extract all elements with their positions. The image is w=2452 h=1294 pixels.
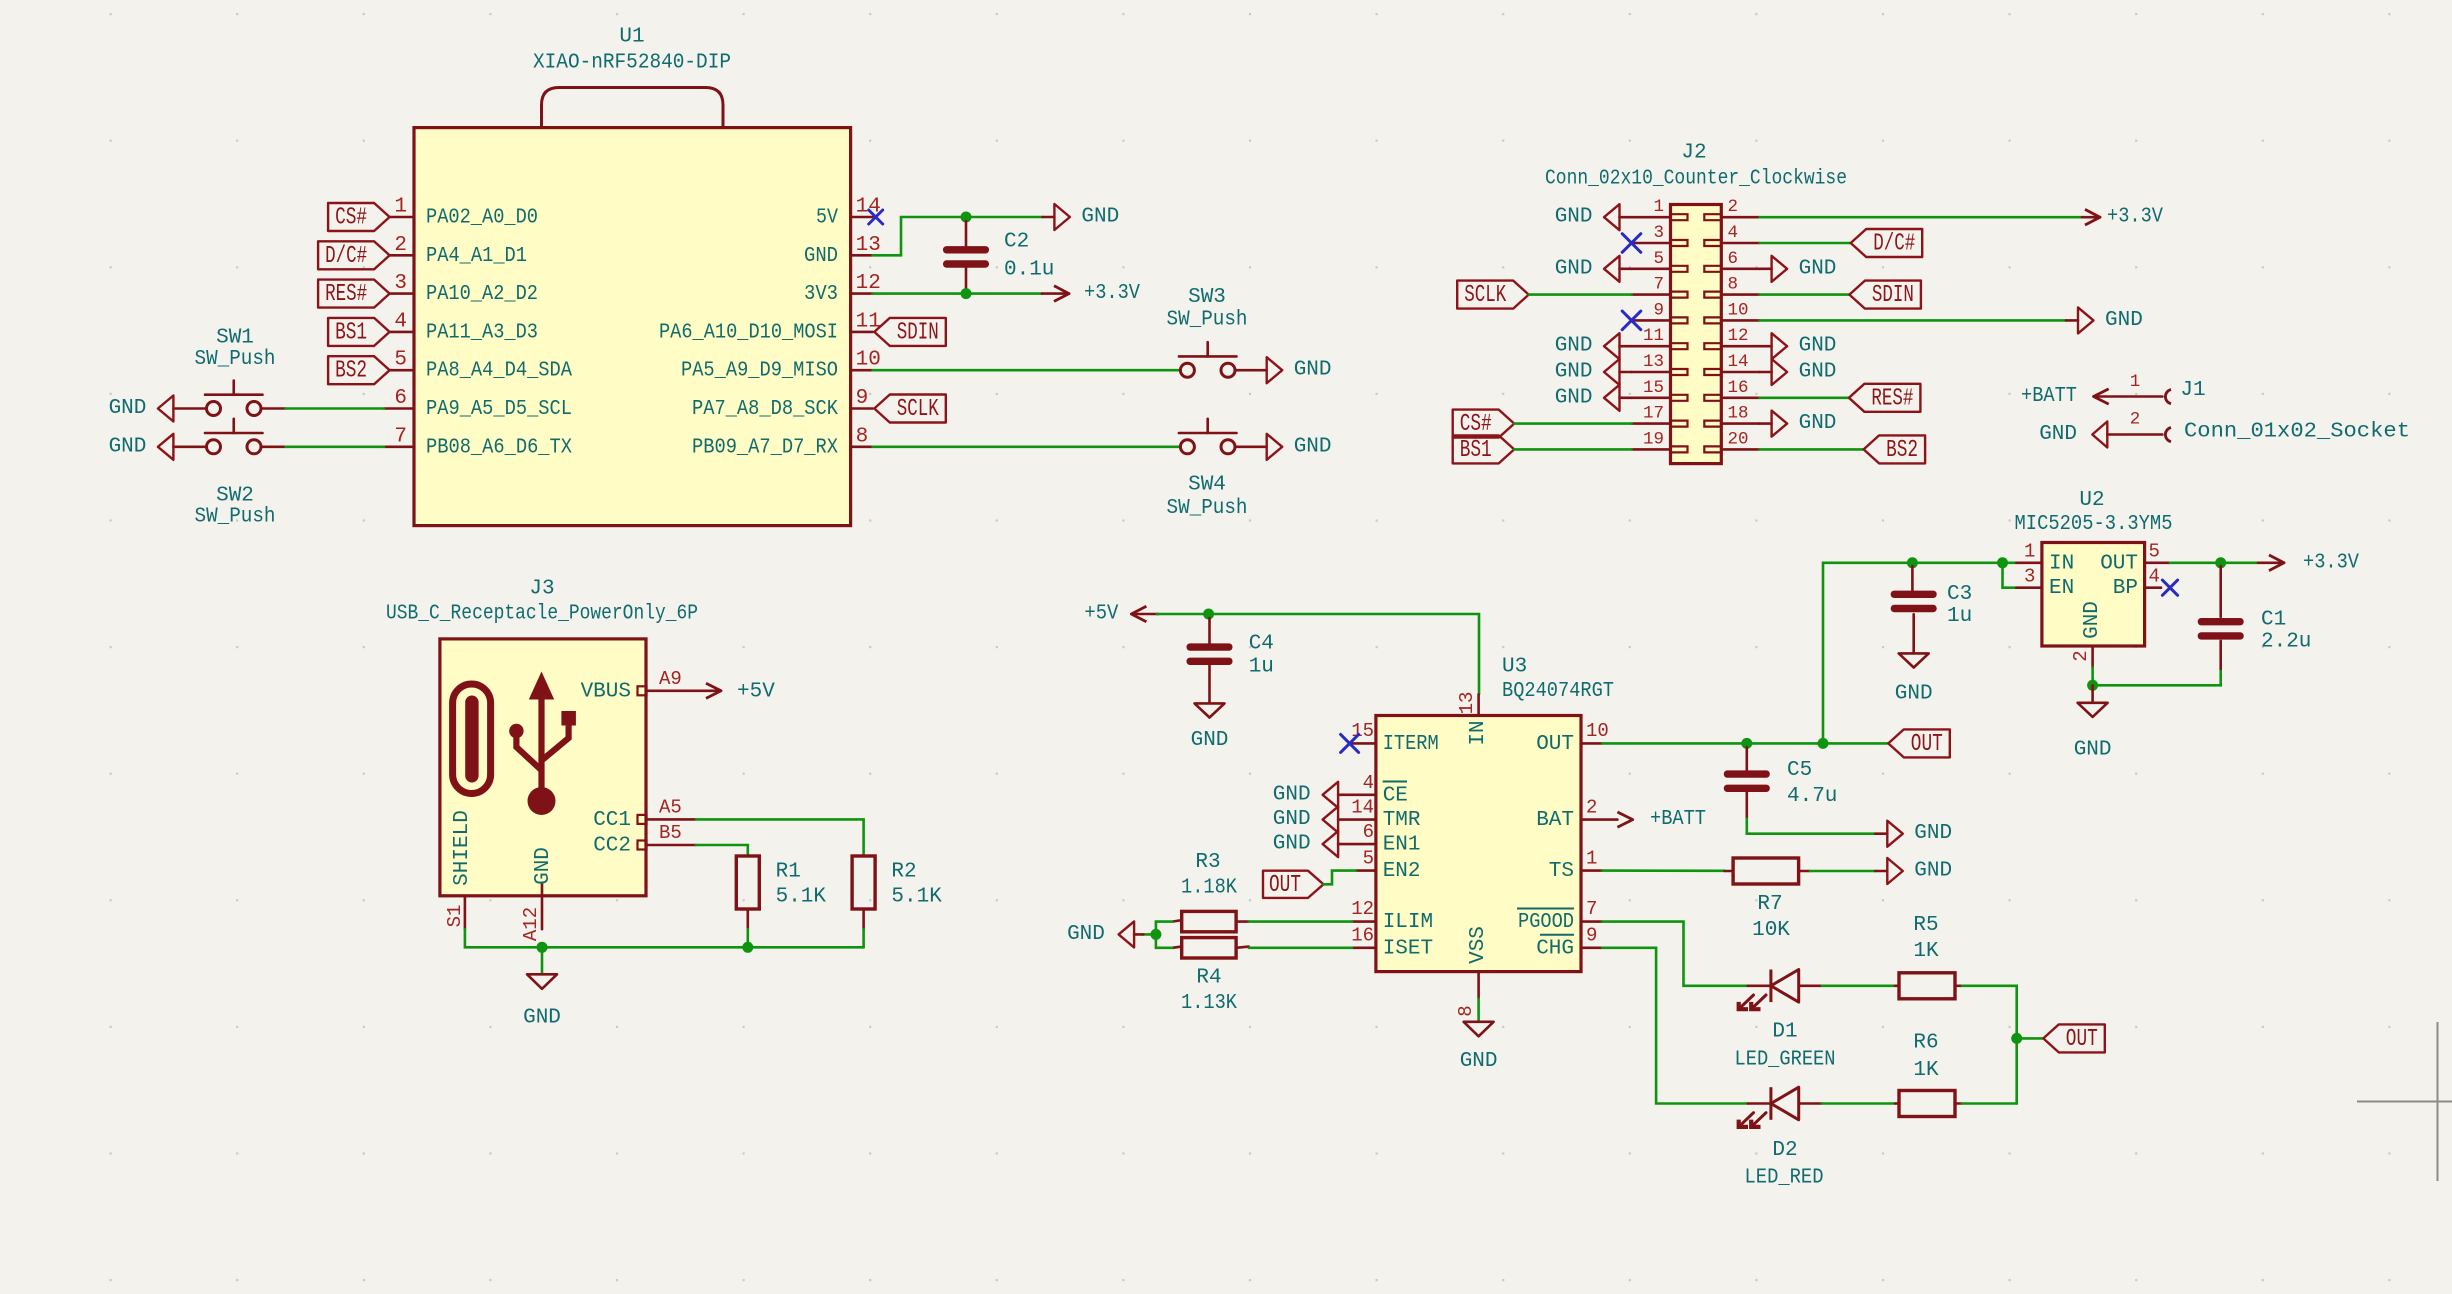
svg-text:5: 5 bbox=[394, 349, 407, 372]
svg-text:GND: GND bbox=[109, 435, 147, 458]
svg-text:OUT: OUT bbox=[1536, 733, 1574, 756]
GND hierarchical label left of SW2 bbox=[109, 434, 207, 460]
USB-C receptacle oval icon bbox=[453, 684, 491, 794]
svg-text:5.1K: 5.1K bbox=[891, 886, 942, 909]
svg-text:VSS: VSS bbox=[1467, 926, 1490, 964]
svg-text:10: 10 bbox=[856, 349, 881, 372]
svg-text:PB09_A7_D7_RX: PB09_A7_D7_RX bbox=[692, 436, 838, 459]
svg-text:R3: R3 bbox=[1195, 851, 1220, 874]
J3 pin B5 CC2 bbox=[593, 822, 696, 858]
svg-text:1: 1 bbox=[1653, 197, 1664, 217]
svg-text:PA10_A2_D2: PA10_A2_D2 bbox=[426, 283, 538, 306]
svg-text:+3.3V: +3.3V bbox=[2303, 551, 2359, 574]
GND hierarchical label at J2 pin 13 bbox=[1555, 359, 1632, 385]
wire U3 TS to R7 bbox=[1602, 869, 1725, 872]
svg-text:PA11_A3_D3: PA11_A3_D3 bbox=[426, 321, 538, 344]
J2 pin 16 bbox=[1704, 378, 1759, 401]
svg-text:J2: J2 bbox=[1681, 142, 1706, 165]
switch SW1 SW_Push bbox=[195, 327, 276, 416]
svg-text:GND: GND bbox=[1799, 361, 1837, 384]
switch SW3 SW_Push bbox=[1167, 286, 1248, 377]
svg-text:BS1: BS1 bbox=[335, 319, 367, 346]
svg-text:D2: D2 bbox=[1772, 1139, 1797, 1162]
svg-text:R6: R6 bbox=[1913, 1032, 1938, 1055]
svg-text:PB08_A6_D6_TX: PB08_A6_D6_TX bbox=[426, 436, 572, 459]
U1 pin 9 PA7_A8_D8_SCK bbox=[692, 387, 873, 421]
svg-text:2: 2 bbox=[2070, 650, 2092, 661]
svg-text:RES#: RES# bbox=[325, 281, 367, 308]
junction at C2 bottom bbox=[961, 288, 972, 299]
U1 pin 6 PA9_A5_D5_SCL bbox=[384, 387, 572, 421]
power label +3.3V at J2 bbox=[2082, 206, 2163, 229]
wire OUT riser to U2 IN bbox=[1823, 563, 2016, 744]
svg-text:R1: R1 bbox=[776, 861, 801, 884]
J2 pin 18 bbox=[1704, 404, 1759, 427]
svg-text:CC1: CC1 bbox=[593, 809, 631, 832]
resistor R3 1.18K bbox=[1172, 851, 1249, 932]
svg-text:D1: D1 bbox=[1772, 1021, 1797, 1044]
wire +5V to U3 IN riser bbox=[1157, 614, 1479, 694]
svg-text:19: 19 bbox=[1643, 429, 1664, 449]
GND power symbol below U2 bbox=[2074, 685, 2112, 761]
svg-text:17: 17 bbox=[1643, 404, 1664, 424]
svg-text:GND: GND bbox=[523, 1006, 561, 1029]
capacitor C4 1u bbox=[1187, 618, 1274, 702]
svg-text:8: 8 bbox=[856, 425, 869, 448]
power label +BATT at U3 BAT bbox=[1617, 808, 1706, 831]
svg-text:U2: U2 bbox=[2079, 489, 2104, 512]
svg-text:PA9_A5_D5_SCL: PA9_A5_D5_SCL bbox=[426, 398, 572, 421]
J2 pin 17 bbox=[1632, 404, 1688, 427]
svg-text:12: 12 bbox=[1728, 326, 1749, 346]
svg-text:8: 8 bbox=[1728, 275, 1739, 295]
svg-text:GND: GND bbox=[2081, 601, 2104, 639]
U2 pin 1 IN bbox=[2016, 541, 2074, 576]
svg-text:GND: GND bbox=[1555, 386, 1593, 409]
svg-text:5: 5 bbox=[1653, 249, 1664, 269]
svg-text:CHG: CHG bbox=[1536, 937, 1574, 960]
net label OUT at U3 EN2 bbox=[1263, 871, 1324, 899]
U3 pin 5 EN2 bbox=[1356, 848, 1421, 884]
svg-text:1.18K: 1.18K bbox=[1181, 877, 1237, 900]
J2 pin 8 bbox=[1704, 275, 1759, 298]
svg-text:S1: S1 bbox=[444, 905, 466, 928]
wire U2 EN branch bbox=[2003, 563, 2017, 588]
wire junction to OUT label bbox=[2017, 1037, 2044, 1040]
junction at R1 bottom bbox=[742, 942, 753, 953]
svg-text:GND: GND bbox=[1799, 412, 1837, 435]
wire R7 to GND bbox=[1810, 870, 1875, 873]
wire J2 pin 8 to SDIN bbox=[1760, 293, 1850, 296]
J2 pin 3 bbox=[1632, 223, 1688, 246]
svg-text:3: 3 bbox=[394, 272, 407, 295]
svg-text:GND: GND bbox=[1273, 783, 1311, 806]
junction at U2 EN branch bbox=[1997, 557, 2008, 568]
net label D/C# (U1 pin 2) bbox=[318, 241, 390, 269]
U3 pin 12 ILIM bbox=[1351, 898, 1433, 934]
wire J2 pin 2 to +3.3V bbox=[1760, 216, 2082, 219]
wire R4 to U3 ISET bbox=[1249, 946, 1352, 949]
no-connect X on J2 pin 3 bbox=[1622, 234, 1641, 253]
svg-text:GND: GND bbox=[1294, 435, 1332, 458]
svg-text:EN1: EN1 bbox=[1383, 834, 1421, 857]
U1 pin 7 PB08_A6_D6_TX bbox=[384, 425, 572, 459]
net label SDIN at J2 pin 8 bbox=[1849, 281, 1921, 310]
net label BS2 at J2 pin 20 bbox=[1864, 435, 1926, 464]
svg-text:4: 4 bbox=[394, 310, 407, 333]
J3 pin A5 CC1 bbox=[593, 797, 696, 832]
wire SW1 to U1 pin6 bbox=[261, 407, 285, 410]
net label SCLK (U1 pin 9) bbox=[874, 395, 946, 424]
svg-text:4: 4 bbox=[1363, 772, 1374, 794]
svg-text:0.1u: 0.1u bbox=[1004, 259, 1054, 282]
svg-text:+5V: +5V bbox=[737, 680, 775, 703]
svg-text:9: 9 bbox=[1653, 300, 1664, 320]
J2 pin 13 bbox=[1632, 352, 1688, 375]
net label BS1 at J2 pin 19 bbox=[1453, 435, 1515, 464]
svg-text:4: 4 bbox=[1728, 223, 1739, 243]
svg-text:ITERM: ITERM bbox=[1383, 733, 1439, 756]
U1 pin 10 PA5_A9_D9_MISO bbox=[681, 349, 881, 383]
U3 pin 14 TMR bbox=[1338, 797, 1421, 833]
svg-text:SDIN: SDIN bbox=[1872, 282, 1914, 309]
svg-text:1u: 1u bbox=[1249, 656, 1274, 679]
no-connect X on U1 pin 14 bbox=[869, 210, 883, 224]
svg-text:MIC5205-3.3YM5: MIC5205-3.3YM5 bbox=[2015, 513, 2173, 536]
svg-text:PA6_A10_D10_MOSI: PA6_A10_D10_MOSI bbox=[659, 321, 838, 344]
wire R6 to OUT junction bbox=[1962, 1102, 2017, 1105]
svg-text:GND: GND bbox=[1555, 206, 1593, 229]
net label CS# at J2 pin 17 bbox=[1453, 410, 1515, 439]
J2 pin 7 bbox=[1632, 275, 1688, 298]
svg-text:USB_C_Receptacle_PowerOnly_6P: USB_C_Receptacle_PowerOnly_6P bbox=[386, 603, 698, 626]
svg-text:GND: GND bbox=[2105, 309, 2143, 332]
svg-text:14: 14 bbox=[1351, 797, 1374, 819]
U2 pin 5 OUT bbox=[2100, 541, 2170, 576]
GND hierarchical label left of SW1 bbox=[109, 396, 207, 422]
svg-text:SW1: SW1 bbox=[216, 327, 254, 350]
SW3 pin2 lead bbox=[1235, 369, 1255, 372]
svg-text:J1: J1 bbox=[2180, 379, 2205, 402]
wire U3 OUT net bbox=[1602, 742, 1888, 745]
svg-text:13: 13 bbox=[1643, 352, 1664, 372]
net label BS1 (U1 pin 4) bbox=[328, 318, 390, 347]
U3 pin 9 CHG bbox=[1536, 925, 1602, 961]
J2 pin 20 bbox=[1704, 429, 1759, 452]
wire U3 CHG to D2 bbox=[1602, 948, 1748, 1104]
net label RES# at J2 pin 16 bbox=[1849, 384, 1921, 413]
svg-text:LED_GREEN: LED_GREEN bbox=[1735, 1049, 1836, 1072]
junction at OUT riser bbox=[1818, 738, 1829, 749]
svg-text:12: 12 bbox=[856, 272, 881, 295]
wire J2 pin 10 to GND bbox=[1760, 319, 2066, 322]
svg-text:GND: GND bbox=[532, 847, 555, 885]
svg-text:PA7_A8_D8_SCK: PA7_A8_D8_SCK bbox=[692, 398, 838, 421]
GND hierarchical label at R3/R4 bbox=[1067, 921, 1143, 947]
GND power symbol below C4 bbox=[1191, 703, 1229, 752]
resistor R2 5.1K bbox=[852, 856, 942, 929]
J2 pin 6 bbox=[1704, 249, 1759, 272]
J2 pin 19 bbox=[1632, 429, 1688, 452]
svg-text:A9: A9 bbox=[659, 668, 682, 690]
GND hierarchical label at C5 bbox=[1875, 821, 1952, 847]
svg-text:BS1: BS1 bbox=[1460, 437, 1492, 464]
svg-text:BS2: BS2 bbox=[335, 358, 367, 385]
svg-text:2: 2 bbox=[1586, 797, 1597, 819]
GND hierarchical label at U3 pin 4 bbox=[1273, 782, 1338, 808]
U1 pin 3 PA10_A2_D2 bbox=[390, 272, 538, 306]
wire U1 pin13 GND to GND label bbox=[873, 217, 1043, 255]
svg-text:5.1K: 5.1K bbox=[776, 886, 827, 909]
J3 pin A9 VBUS bbox=[581, 668, 721, 703]
svg-text:B5: B5 bbox=[659, 822, 682, 844]
wire CC2 to R1 bbox=[696, 845, 748, 856]
svg-text:ILIM: ILIM bbox=[1383, 911, 1433, 934]
svg-text:+BATT: +BATT bbox=[1650, 808, 1706, 831]
J2 reference and value labels bbox=[1545, 142, 1847, 191]
svg-text:A12: A12 bbox=[520, 907, 542, 941]
net label OUT near C5 bbox=[1888, 729, 1950, 758]
svg-text:1K: 1K bbox=[1913, 1059, 1939, 1082]
svg-text:1.13K: 1.13K bbox=[1181, 992, 1237, 1015]
GND hierarchical label right of SW3 bbox=[1255, 357, 1332, 383]
svg-text:VBUS: VBUS bbox=[581, 680, 631, 703]
wire R3/R4 left junction bbox=[1156, 922, 1172, 948]
svg-text:SW_Push: SW_Push bbox=[195, 348, 276, 371]
svg-text:GND: GND bbox=[1294, 359, 1332, 382]
svg-text:GND: GND bbox=[1895, 683, 1933, 706]
U1 pin 12 3V3 bbox=[804, 272, 881, 306]
svg-text:9: 9 bbox=[856, 387, 869, 410]
junction at C2 top bbox=[961, 212, 972, 223]
svg-text:PA8_A4_D4_SDA: PA8_A4_D4_SDA bbox=[426, 360, 572, 383]
svg-text:16: 16 bbox=[1728, 378, 1749, 398]
J1 pin 2 bbox=[2107, 410, 2171, 442]
resistor R6 1K bbox=[1895, 1032, 1962, 1117]
switch SW2 SW_Push bbox=[195, 419, 276, 529]
junction at C3 top bbox=[1907, 557, 1918, 568]
svg-text:4.7u: 4.7u bbox=[1787, 785, 1837, 808]
svg-text:3V3: 3V3 bbox=[804, 283, 838, 306]
svg-text:BQ24074RGT: BQ24074RGT bbox=[1502, 680, 1614, 703]
svg-text:3: 3 bbox=[2024, 566, 2035, 588]
svg-text:6: 6 bbox=[394, 387, 407, 410]
svg-text:SW4: SW4 bbox=[1188, 474, 1226, 497]
junction at C1 top bbox=[2215, 557, 2226, 568]
J3 body USB_C_Receptacle_PowerOnly_6P bbox=[440, 639, 646, 896]
svg-text:U1: U1 bbox=[619, 26, 644, 49]
U1 pin 8 PB09_A7_D7_RX bbox=[692, 425, 873, 459]
GND hierarchical label at J2 pin 5 bbox=[1555, 256, 1632, 282]
resistor R4 1.13K bbox=[1172, 938, 1249, 1015]
net label BS2 (U1 pin 5) bbox=[328, 356, 390, 385]
svg-text:GND: GND bbox=[1067, 923, 1105, 946]
svg-text:TMR: TMR bbox=[1383, 809, 1421, 832]
svg-text:18: 18 bbox=[1728, 404, 1749, 424]
svg-text:IN: IN bbox=[2049, 552, 2074, 575]
GND hierarchical label at J2 pin 14 bbox=[1760, 359, 1837, 385]
U2 pin 4 BP bbox=[2113, 566, 2161, 601]
svg-text:CE: CE bbox=[1383, 784, 1408, 807]
U1 pin 1 PA02_A0_D0 bbox=[390, 196, 538, 230]
wire U2 OUT to +3.3V bbox=[2170, 561, 2258, 564]
svg-text:+BATT: +BATT bbox=[2021, 385, 2077, 408]
svg-text:1u: 1u bbox=[1947, 605, 1972, 628]
svg-text:16: 16 bbox=[1351, 925, 1374, 947]
U2 reference and value labels bbox=[2015, 489, 2173, 536]
wire U1 pin12 3V3 to +3.3V bbox=[873, 292, 1042, 295]
svg-text:10: 10 bbox=[1586, 720, 1609, 742]
svg-text:7: 7 bbox=[1653, 275, 1664, 295]
U2 pin 2 GND (bottom) bbox=[2070, 646, 2093, 668]
wire SW2 to U1 pin7 bbox=[261, 445, 285, 448]
svg-text:OUT: OUT bbox=[2100, 552, 2138, 575]
svg-text:12: 12 bbox=[1351, 898, 1374, 920]
svg-text:C1: C1 bbox=[2261, 609, 2286, 632]
resistor R1 5.1K bbox=[736, 856, 826, 929]
wire U1 pin10 MISO to SW3 bbox=[873, 369, 1181, 372]
net label CS# (U1 pin 1) bbox=[328, 203, 390, 232]
svg-text:Conn_01x02_Socket: Conn_01x02_Socket bbox=[2184, 421, 2410, 444]
svg-text:1: 1 bbox=[2130, 372, 2141, 392]
power label +5V at C4 net bbox=[1084, 603, 1158, 626]
svg-text:BAT: BAT bbox=[1536, 809, 1574, 832]
svg-text:SCLK: SCLK bbox=[897, 396, 939, 423]
no-connect X on U3 pin 15 bbox=[1341, 734, 1359, 752]
U3 body BQ24074RGT bbox=[1376, 716, 1581, 972]
svg-text:5: 5 bbox=[2149, 541, 2160, 563]
svg-text:GND: GND bbox=[1273, 808, 1311, 831]
svg-text:D/C#: D/C# bbox=[1873, 231, 1915, 258]
J2 pin 9 bbox=[1632, 300, 1688, 323]
wire R3 to U3 ILIM bbox=[1249, 920, 1352, 923]
junction at R3/R4 GND bbox=[1150, 929, 1161, 940]
U3 pin 15 ITERM bbox=[1351, 720, 1439, 756]
svg-text:5: 5 bbox=[1363, 848, 1374, 870]
svg-text:BS2: BS2 bbox=[1886, 437, 1918, 464]
switch SW4 SW_Push bbox=[1167, 419, 1248, 520]
power label +BATT at J1 pin 1 bbox=[2021, 385, 2109, 408]
svg-text:PGOOD: PGOOD bbox=[1518, 911, 1574, 934]
U1 reference and value labels bbox=[533, 26, 731, 75]
svg-text:C4: C4 bbox=[1249, 633, 1274, 656]
svg-text:11: 11 bbox=[1643, 326, 1664, 346]
svg-text:XIAO-nRF52840-DIP: XIAO-nRF52840-DIP bbox=[533, 52, 731, 75]
U3 pin 6 EN1 bbox=[1338, 821, 1420, 857]
svg-text:SHIELD: SHIELD bbox=[451, 810, 474, 886]
wire CS# to J2 pin 17 bbox=[1514, 422, 1631, 425]
svg-text:10: 10 bbox=[1728, 300, 1749, 320]
GND hierarchical label at R7 bbox=[1875, 858, 1952, 884]
svg-text:EN2: EN2 bbox=[1383, 860, 1421, 883]
svg-text:GND: GND bbox=[1081, 206, 1119, 229]
svg-text:6: 6 bbox=[1728, 249, 1739, 269]
svg-text:1K: 1K bbox=[1913, 940, 1939, 963]
resistor R5 1K bbox=[1895, 914, 1962, 999]
LED D1 LED_GREEN bbox=[1735, 970, 1836, 1072]
svg-text:Conn_02x10_Counter_Clockwise: Conn_02x10_Counter_Clockwise bbox=[1545, 168, 1847, 191]
svg-text:20: 20 bbox=[1728, 429, 1749, 449]
GND hierarchical label at J2 pin 18 bbox=[1760, 411, 1837, 437]
LED D2 LED_RED bbox=[1739, 1087, 1824, 1189]
U1 pin 4 PA11_A3_D3 bbox=[390, 310, 538, 344]
svg-text:GND: GND bbox=[2039, 423, 2077, 446]
svg-text:GND: GND bbox=[1273, 833, 1311, 856]
J2 pin 10 bbox=[1704, 300, 1759, 323]
net label SCLK at J2 pin 7 bbox=[1457, 281, 1529, 310]
J1 pin 1 bbox=[2094, 372, 2171, 404]
U1 top notch bbox=[542, 88, 724, 128]
svg-text:SW3: SW3 bbox=[1188, 286, 1226, 309]
resistor R7 10K bbox=[1725, 858, 1810, 942]
svg-text:OUT: OUT bbox=[1269, 872, 1301, 899]
U1 pin 2 PA4_A1_D1 bbox=[390, 234, 527, 268]
GND power symbol below U3 bbox=[1460, 999, 1498, 1073]
svg-text:R5: R5 bbox=[1913, 914, 1938, 937]
J2 pin 11 bbox=[1632, 326, 1688, 349]
svg-text:CS#: CS# bbox=[1460, 411, 1492, 438]
wire D1 to R5 bbox=[1822, 984, 1895, 987]
svg-text:8: 8 bbox=[1455, 1005, 1477, 1016]
svg-text:7: 7 bbox=[1586, 898, 1597, 920]
U3 pin 10 OUT bbox=[1536, 720, 1609, 756]
svg-text:PA5_A9_D9_MISO: PA5_A9_D9_MISO bbox=[681, 360, 838, 383]
svg-text:PA02_A0_D0: PA02_A0_D0 bbox=[426, 207, 538, 230]
svg-text:+3.3V: +3.3V bbox=[2107, 206, 2163, 229]
U3 reference and value labels bbox=[1502, 656, 1614, 704]
U1 pin 13 GND bbox=[804, 234, 881, 268]
capacitor C2 bbox=[943, 221, 1054, 292]
svg-text:C2: C2 bbox=[1004, 231, 1029, 254]
J2 pin 15 bbox=[1632, 378, 1688, 401]
svg-text:6: 6 bbox=[1363, 821, 1374, 843]
USB trident icon bbox=[509, 672, 576, 897]
wire U1 pin8 RX to SW4 bbox=[873, 445, 1181, 448]
wire U3 PGOOD to D1 bbox=[1602, 922, 1748, 986]
junction at C5 top bbox=[1741, 738, 1752, 749]
GND power symbol below C3 bbox=[1895, 653, 1933, 705]
svg-text:D/C#: D/C# bbox=[325, 243, 367, 270]
svg-text:3: 3 bbox=[1653, 223, 1664, 243]
power label +3.3V at U1 bbox=[1042, 282, 1140, 305]
svg-text:9: 9 bbox=[1586, 925, 1597, 947]
svg-text:GND: GND bbox=[1555, 257, 1593, 280]
svg-text:GND: GND bbox=[109, 397, 147, 420]
svg-text:2: 2 bbox=[394, 234, 407, 257]
U3 pin 7 PGOOD bbox=[1517, 898, 1602, 934]
svg-text:J3: J3 bbox=[529, 578, 554, 601]
GND hierarchical label at J2 pin 12 bbox=[1760, 333, 1837, 359]
capacitor C1 2.2u bbox=[2198, 566, 2312, 669]
svg-text:4: 4 bbox=[2149, 566, 2160, 588]
svg-text:GND: GND bbox=[1555, 335, 1593, 358]
svg-text:ISET: ISET bbox=[1383, 937, 1433, 960]
svg-text:A5: A5 bbox=[659, 797, 682, 819]
GND hierarchical label at J1 pin 2 bbox=[2039, 422, 2107, 448]
svg-text:+5V: +5V bbox=[1084, 603, 1118, 626]
svg-text:14: 14 bbox=[1728, 352, 1749, 372]
J2 pin 2 bbox=[1704, 197, 1759, 220]
wire C5 bottom to GND bbox=[1747, 819, 1876, 834]
svg-text:1: 1 bbox=[394, 196, 407, 219]
wire U2 GND to C1 bottom bbox=[2093, 668, 2221, 686]
junction below U2 bbox=[2087, 680, 2098, 691]
no-connect X on U2 pin 4 bbox=[2162, 580, 2177, 595]
wire J2 pin 16 to RES# bbox=[1760, 396, 1849, 399]
svg-text:2.2u: 2.2u bbox=[2261, 631, 2311, 654]
U3 pin 13 IN (top) bbox=[1456, 692, 1490, 746]
svg-text:GND: GND bbox=[1460, 1050, 1498, 1073]
